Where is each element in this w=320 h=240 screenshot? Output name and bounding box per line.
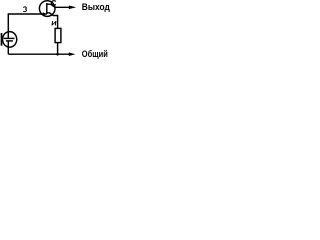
wire mic bottom lead [7,41,9,54]
microphone BM1 [2,32,17,48]
arrow common [69,52,76,56]
pin label C (drain) [51,1,55,6]
svg-text:Выход: Выход [82,2,110,12]
wire resistor bottom lead [57,43,59,55]
wire common bottom [8,53,70,55]
wire drain to output [47,4,71,7]
node junction [56,53,59,56]
wire gate: mic top lead up and right to transistor gate [8,14,47,38]
svg-text:Общий: Общий [82,49,108,59]
wire source down to resistor [47,13,58,29]
pin label 3 (gate) [23,7,26,12]
pin label И (source) [52,21,56,25]
arrow output [69,6,76,10]
transistor VT1 (FET) [39,1,55,17]
resistor R1 [55,28,61,42]
